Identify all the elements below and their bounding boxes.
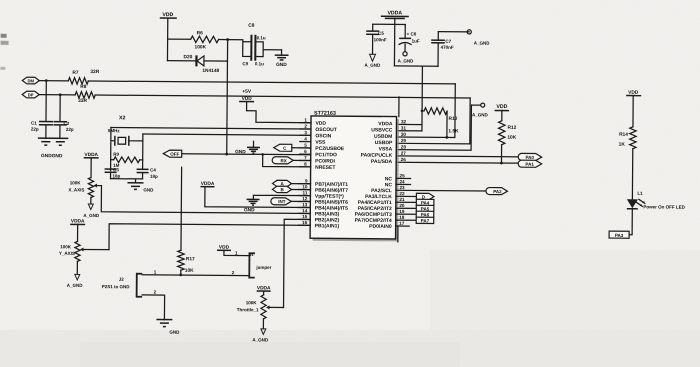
IC left pin stubs 9-16 [298,184,310,226]
wire DM line to USBDM riser [88,81,455,84]
svg-text:NRESET: NRESET [315,165,335,171]
A_GND terminal (X pot) [83,197,100,218]
svg-text:X_AXIS: X_AXIS [68,187,84,192]
svg-text:DP: DP [28,92,34,97]
wire pin32 stub [396,123,421,125]
svg-text:VDDA: VDDA [387,10,402,16]
node DP tag [22,91,39,98]
wire pin19 stub [396,213,416,215]
wire OSCOUT (pin2) [111,127,311,129]
svg-text:R7: R7 [72,70,79,76]
resistor R9 1M [111,152,143,168]
wire pin23 to PA2 tag [396,189,486,192]
wire USBDM (pin30) [396,83,455,137]
svg-text:INT: INT [278,199,286,204]
svg-text:+5V: +5V [242,89,252,95]
node PA1 tag [518,160,542,167]
junction DM/C1 [45,79,48,82]
capacitor C5 100nF [366,24,387,54]
IC right pin numbers 32-26 [401,119,407,162]
node PA2 tag [486,188,508,195]
scan smudge left edge [1,34,7,38]
svg-text:C3: C3 [113,167,119,172]
svg-text:OFF: OFF [170,152,179,157]
wire X wiper to pin14 [101,186,310,214]
wire VDDA rail [372,24,405,66]
resistor R14 1K [619,127,637,149]
svg-text:26: 26 [401,157,407,162]
A_GND terminal (C7) [467,30,490,46]
svg-text:13: 13 [302,202,308,207]
capacitor C1 [31,81,53,139]
node PA3 tag [609,231,629,238]
IC left pin stubs 1-8 [300,123,311,167]
svg-text:VDD: VDD [315,121,326,127]
svg-text:100nF: 100nF [374,37,387,42]
capacitor C4 18p [137,167,159,179]
svg-text:A_GND: A_GND [67,283,84,288]
wire OFF to PC1 (pin6) [182,154,311,155]
svg-text:10K: 10K [507,135,516,141]
resistor R6 [168,30,228,50]
svg-text:10K: 10K [185,268,194,274]
svg-text:33R: 33R [90,69,99,75]
potentiometer X_AXIS 100K [68,152,101,198]
wire crystal caps to ground [111,179,143,183]
svg-text:VSS: VSS [315,140,326,146]
svg-text:1.5K: 1.5K [448,128,459,134]
svg-text:R9: R9 [113,152,119,157]
wire Vpp/TEST (pin11) to ground [253,195,310,199]
svg-text:22p: 22p [66,127,74,132]
svg-text:PC2/USBOE: PC2/USBOE [315,146,345,152]
svg-text:A_GND: A_GND [472,112,489,117]
svg-text:J2: J2 [119,277,125,282]
svg-text:32: 32 [401,119,407,124]
svg-text:31: 31 [401,126,407,131]
svg-text:PA4: PA4 [421,200,430,205]
node A tag (pin9) [272,180,310,187]
svg-text:PC0/RDI: PC0/RDI [315,158,335,164]
svg-text:28: 28 [401,144,407,149]
svg-text:Y_AXIS: Y_AXIS [59,251,75,256]
wire pin17 stub down [396,226,410,242]
svg-text:C4: C4 [150,167,156,172]
svg-text:PC1/TDO: PC1/TDO [315,152,337,158]
svg-text:100K: 100K [70,180,82,185]
wire C7 top to A_GND [438,31,469,33]
wire OSCIN (pin3) [143,134,311,135]
svg-text:0.1u: 0.1u [255,61,264,66]
svg-text:27: 27 [401,151,407,156]
capacitor C8 [227,23,266,61]
wire bottom rail (J2 pin1 / R17 / jumper pin2) [142,274,248,277]
wire R10 right leg to USBDM line [446,111,448,137]
wire pin20 stub [396,207,416,209]
svg-text:24: 24 [399,179,405,184]
svg-text:22: 22 [399,191,405,196]
resistor R10 1.5K [424,108,459,135]
svg-text:29: 29 [401,138,407,143]
svg-text:PA6: PA6 [421,212,430,217]
node RX tag (pin7) [272,157,311,164]
wire Throttle wiper to pin15 [284,219,311,308]
svg-text:OSCIN: OSCIN [315,133,331,139]
IC left pin numbers 1-8 [304,117,307,166]
svg-text:1N4148: 1N4148 [202,68,219,74]
svg-text:30: 30 [401,132,407,137]
wire pin21 stub [396,201,416,203]
wire VDD to pin1 [246,102,311,123]
svg-text:18: 18 [399,215,405,220]
node INT tag (pin12) [271,198,311,205]
svg-text:14: 14 [302,208,308,213]
svg-text:R10: R10 [448,116,457,122]
IC right pin names [355,121,394,230]
wire R14 to LED [631,149,633,199]
svg-text:16: 16 [302,220,308,225]
wire node vertical (R6/D20 node down to OFF line) [226,40,229,154]
svg-text:R12: R12 [507,125,516,131]
LED L1 [627,191,686,210]
node OFF tag [163,150,182,157]
svg-text:5MHz: 5MHz [108,128,121,133]
svg-text:USBVCC: USBVCC [371,127,393,133]
svg-text:A_GND: A_GND [474,41,491,46]
svg-text:GNDGND: GNDGND [41,153,63,159]
capacitor C2 [53,95,74,139]
svg-text:C7: C7 [445,39,451,44]
svg-text:R8: R8 [80,84,87,90]
ground (J2) [156,320,180,335]
svg-text:470nF: 470nF [441,45,454,50]
svg-text:C8: C8 [248,23,255,29]
svg-text:19: 19 [399,209,405,214]
svg-text:10: 10 [302,184,308,189]
svg-text:D20: D20 [183,54,192,60]
capacitor C9 [242,42,281,67]
IC U1 ST72163 [310,111,399,242]
node C tag (pin5) [274,144,311,151]
power VDDA (pin13) [200,181,310,208]
IC right pin numbers 25-17 [399,173,405,226]
connector J1 jumper [232,253,272,278]
power VDD (jumper) [217,245,249,256]
svg-text:25: 25 [400,173,406,178]
ground for C8/C9 [275,50,289,68]
svg-text:18p: 18p [113,173,121,178]
wire pin31 stub [396,130,421,132]
node PA7 box [416,217,434,223]
power VDD (top left) [159,12,176,61]
power VDD (LED branch) [626,90,641,127]
potentiometer Y_AXIS 100K [59,218,109,261]
svg-text:J1: J1 [249,253,253,257]
node B tag (pin10) [272,186,310,193]
A_GND terminal (Y pot) [67,261,84,288]
ground (crystal) [127,183,154,193]
svg-text:VDDA: VDDA [378,121,393,127]
svg-text:0.1u: 0.1u [257,35,266,40]
resistor R7 [68,69,99,84]
svg-text:A_GND: A_GND [252,337,269,342]
svg-text:21: 21 [399,197,405,202]
svg-text:GND: GND [276,62,287,68]
crystal X2 5MHz [108,115,143,171]
junction DP/C2 [59,93,62,96]
svg-text:C1: C1 [31,121,37,126]
svg-text:PA3: PA3 [615,233,624,238]
svg-text:PD0/AIN0: PD0/AIN0 [369,224,392,230]
wire VSSA (pin28) to A_GND [396,104,480,150]
svg-text:C2: C2 [63,121,69,126]
ground (VSS pin4) [235,141,260,155]
capacitor C7 470nF [431,32,454,67]
svg-text:17: 17 [399,221,405,226]
diode D20 1N4148 [167,54,227,74]
ground for C1 [38,138,54,145]
A_GND terminal for C6 [398,52,415,64]
wire short riser at chip corner [398,97,400,117]
IC left pin names [315,121,349,230]
wire DM to R7 [39,80,68,82]
svg-text:+ C6: + C6 [407,31,417,36]
resistor R12 10K [498,121,516,145]
svg-text:A_GND: A_GND [83,213,100,218]
svg-text:RX: RX [281,158,287,163]
wire branch to NRESET (pin8) [263,154,311,166]
svg-text:100K: 100K [60,244,72,249]
ground (Vpp/TEST) [244,199,260,213]
svg-text:Throttle_1: Throttle_1 [237,307,259,312]
wire pin18 stub [396,219,416,221]
svg-text:100K: 100K [195,44,207,50]
node PA0 tag [518,153,542,160]
svg-text:1uF: 1uF [412,39,420,44]
svg-text:X2: X2 [119,115,126,121]
svg-text:P2S1 to GND: P2S1 to GND [102,284,131,289]
ground for C2 [52,138,68,145]
connector J2 P2S1 to GND [102,269,157,297]
svg-text:VDDA: VDDA [71,218,85,224]
resistor R17 10K [178,167,196,275]
svg-text:jumper: jumper [255,265,271,270]
svg-text:15: 15 [302,214,308,219]
svg-text:DM: DM [28,78,35,83]
svg-text:R17: R17 [186,256,195,262]
A_GND terminal (VSSA) [472,103,489,117]
capacitor C3 18p [105,167,121,179]
svg-text:VDD: VDD [162,12,173,18]
svg-text:C5: C5 [378,31,384,36]
svg-text:18p: 18p [150,174,158,179]
svg-text:GND: GND [169,330,180,335]
power +5V VDD (chip supply) [239,89,254,102]
svg-text:R6: R6 [197,30,204,36]
potentiometer Throttle_1 100K [237,285,284,319]
IC right NC stubs 25,24 [396,178,411,184]
svg-text:OSCOUT: OSCOUT [315,127,336,133]
wire USBDP (pin29) [396,97,470,143]
svg-text:PA0: PA0 [525,155,534,160]
svg-text:VSSA: VSSA [379,146,393,152]
wire Y wiper to pin16 [109,224,310,251]
node D tag [416,193,434,200]
svg-text:C9: C9 [242,61,248,66]
svg-text:ST72163: ST72163 [314,111,336,117]
svg-text:USBDM: USBDM [374,134,392,140]
power VDDA (top) [381,10,409,24]
svg-text:PA2: PA2 [493,189,502,194]
wire VDDA drop to pin32/31 [421,66,424,131]
wire LED to PA3 tag [629,209,632,235]
svg-text:1K: 1K [619,142,626,148]
node DM tag [22,77,39,84]
svg-text:20: 20 [399,203,405,208]
svg-text:22p: 22p [31,127,39,132]
node PA4 box [416,199,434,205]
A_GND arrow for C5 [365,54,382,68]
svg-text:100K: 100K [246,300,258,305]
svg-text:PA0/CPUCLK: PA0/CPUCLK [361,153,393,159]
wire pin22 to D tag [396,195,416,197]
svg-text:33R: 33R [78,98,87,104]
svg-text:R14: R14 [619,132,628,138]
svg-text:USBDP: USBDP [375,140,393,146]
svg-text:A_GND: A_GND [365,63,382,68]
wire DP to R8 [39,94,75,96]
svg-text:PA1/SDA: PA1/SDA [371,159,393,165]
A_GND terminal (Throttle) [252,319,269,343]
svg-text:A_GND: A_GND [398,58,415,63]
svg-text:PA1: PA1 [525,162,534,167]
wire R12 to PA1 line [500,145,502,163]
node PA5 box [416,205,434,211]
svg-text:L1: L1 [637,191,643,196]
wire J2 pin2 to ground [142,295,165,320]
wire VDDA horizontal to C7 branch [394,65,438,67]
wire PA1 (pin26) [396,161,518,164]
resistor R8 [75,84,95,104]
svg-text:23: 23 [399,185,405,190]
power VDD (mid right) [495,104,510,121]
wire DP line to USBDP riser [95,95,470,98]
capacitor C6 1uF (polarized) [399,24,420,51]
wire PA0 (pin27) [396,155,518,158]
svg-text:GND: GND [143,187,154,192]
svg-text:12: 12 [302,196,308,201]
svg-text:VDD: VDD [496,104,507,110]
svg-text:PB1(AIN1): PB1(AIN1) [315,223,340,229]
svg-text:PA7: PA7 [421,218,430,223]
IC left pin numbers 9-16 [302,178,308,225]
node PA6 box [416,211,434,217]
svg-text:Power On OFF LED: Power On OFF LED [643,204,685,209]
svg-text:11: 11 [303,190,308,195]
